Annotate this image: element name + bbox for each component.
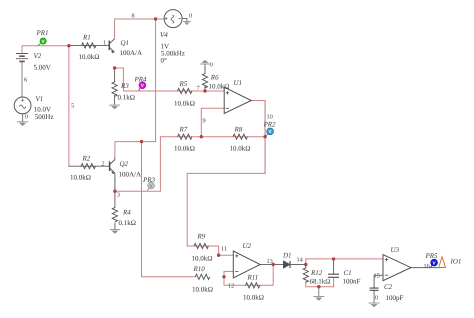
svg-text:5.00V: 5.00V xyxy=(34,64,51,72)
ground under R3 xyxy=(109,105,120,109)
svg-text:R5: R5 xyxy=(179,80,188,88)
svg-text:IO1: IO1 xyxy=(450,258,462,266)
wire battery top to R1 junction xyxy=(22,46,69,53)
svg-text:U1: U1 xyxy=(234,79,243,87)
junction node11 xyxy=(217,254,220,257)
wire node4 vertical to R10 xyxy=(142,142,196,277)
resistor R11 xyxy=(246,283,260,288)
connector IO1 xyxy=(439,257,446,268)
svg-text:1: 1 xyxy=(103,40,106,47)
resistor R2 xyxy=(81,164,95,169)
wire Q2 emitter node3 to R7 xyxy=(115,137,201,192)
svg-text:R11: R11 xyxy=(247,274,259,282)
svg-text:R8: R8 xyxy=(234,126,243,134)
svg-text:9: 9 xyxy=(203,118,206,125)
svg-text:10.0kΩ: 10.0kΩ xyxy=(174,145,195,153)
wire node8 left to Q2 collector xyxy=(115,142,156,158)
svg-text:0.1kΩ: 0.1kΩ xyxy=(119,219,136,227)
wire R6 top to flipped ground xyxy=(204,64,206,74)
wire R12 bottom row to C1 bottom xyxy=(306,277,334,286)
wire R8 row xyxy=(201,136,265,138)
wire C2 bottom to ground xyxy=(373,290,375,303)
svg-text:15: 15 xyxy=(374,273,380,280)
wire node5 vertical junction to R2 xyxy=(68,46,70,167)
resistor R4 xyxy=(112,208,117,222)
op-amp U1 xyxy=(224,87,251,113)
wire ground tap below R12 row xyxy=(318,287,320,297)
resistor R10 xyxy=(195,274,209,279)
wire U3 minus to C2 xyxy=(374,275,383,288)
wire V4 right lead to ground xyxy=(182,19,187,22)
junction Q2 emitter node3 xyxy=(113,190,116,193)
svg-text:8: 8 xyxy=(132,13,135,20)
svg-text:14: 14 xyxy=(297,257,304,264)
svg-text:C2: C2 xyxy=(384,283,393,291)
junction node8 xyxy=(154,17,157,20)
svg-text:100pF: 100pF xyxy=(386,294,404,302)
svg-text:5: 5 xyxy=(71,103,74,110)
svg-text:PR1: PR1 xyxy=(36,29,49,37)
wire C1 top lead xyxy=(333,259,335,274)
probe PR5 xyxy=(431,259,438,267)
svg-text:D1: D1 xyxy=(282,252,292,260)
junction ground tap xyxy=(317,285,320,288)
junction node14 xyxy=(304,263,307,266)
svg-text:0: 0 xyxy=(25,114,28,121)
svg-text:10.0kΩ: 10.0kΩ xyxy=(174,100,195,108)
resistor R5 xyxy=(178,88,192,93)
wire Q1 collector to node8 and V4 xyxy=(115,19,165,39)
AC source V4 xyxy=(164,10,182,28)
probe PR3 xyxy=(147,182,154,191)
svg-text:U3: U3 xyxy=(391,246,400,254)
svg-text:0: 0 xyxy=(210,62,213,69)
svg-text:R3: R3 xyxy=(120,82,129,90)
wire node9 to U1 minus xyxy=(201,108,224,136)
svg-text:10.0kΩ: 10.0kΩ xyxy=(79,53,100,61)
battery V2 xyxy=(16,54,28,62)
svg-text:R7: R7 xyxy=(179,126,188,134)
wire C1 junction to U3 plus input xyxy=(334,258,383,260)
junction node9 xyxy=(200,135,203,138)
flipped ground above R6 xyxy=(200,60,211,64)
svg-text:11: 11 xyxy=(221,246,227,253)
wire node10 down past PR2 xyxy=(264,101,266,174)
wire battery to V1 node6 xyxy=(21,62,23,98)
svg-text:3: 3 xyxy=(117,192,120,199)
svg-text:100A/A: 100A/A xyxy=(120,49,143,57)
svg-text:0: 0 xyxy=(375,295,378,302)
junction Q1 emitter xyxy=(113,66,116,69)
svg-text:500Hz: 500Hz xyxy=(35,113,54,121)
wire U3 output xyxy=(411,267,440,269)
svg-text:R12: R12 xyxy=(310,269,323,277)
svg-text:U2: U2 xyxy=(243,242,252,250)
junction Q2 collector branch xyxy=(140,140,143,143)
probe PR4 xyxy=(139,82,146,91)
svg-text:2: 2 xyxy=(102,161,105,168)
wire R1 row xyxy=(69,44,109,46)
resistor R7 xyxy=(178,134,192,139)
svg-text:68.1kΩ: 68.1kΩ xyxy=(310,278,331,286)
junction R6 bottom node7 xyxy=(203,89,206,92)
svg-text:R6: R6 xyxy=(210,74,219,82)
svg-text:R2: R2 xyxy=(82,155,91,163)
svg-text:10: 10 xyxy=(267,114,273,121)
ground under R4 xyxy=(110,230,120,234)
op-amp U2 xyxy=(233,251,260,278)
svg-text:100A/A: 100A/A xyxy=(119,171,142,179)
transistor Q2 xyxy=(110,158,115,192)
ground at V4 xyxy=(183,22,191,25)
svg-text:10.0kΩ: 10.0kΩ xyxy=(192,286,213,294)
svg-text:PR3: PR3 xyxy=(142,176,156,184)
svg-text:0°: 0° xyxy=(161,57,168,65)
svg-text:C1: C1 xyxy=(344,269,352,277)
wire U2 minus input loop xyxy=(224,265,273,286)
junction R10 to U2 minus xyxy=(222,275,225,278)
wire R4 leads xyxy=(114,191,116,229)
resistor R8 xyxy=(233,134,247,139)
resistor R3 xyxy=(112,82,117,96)
wire R2 row xyxy=(69,165,110,167)
junction node10 xyxy=(263,135,266,138)
probe PR2 xyxy=(265,128,273,136)
svg-text:V2: V2 xyxy=(34,52,42,60)
wire V1 to ground xyxy=(22,114,24,122)
resistor R6 xyxy=(202,74,207,92)
junction C1 top xyxy=(332,257,335,260)
junction node5/R1 xyxy=(67,44,70,47)
op-amp U3 xyxy=(383,255,411,281)
resistor R9 xyxy=(194,243,208,248)
wire R3 leads xyxy=(114,68,116,105)
capacitor C1 xyxy=(328,274,339,277)
ground under V1 xyxy=(17,122,28,126)
diode D1 xyxy=(284,261,291,268)
svg-text:PR5: PR5 xyxy=(425,252,439,260)
svg-text:7: 7 xyxy=(197,85,200,92)
svg-text:10.0kΩ: 10.0kΩ xyxy=(70,174,91,182)
svg-text:0.1kΩ: 0.1kΩ xyxy=(118,94,135,102)
wire D1 cathode to node14 xyxy=(291,264,306,266)
svg-text:Q1: Q1 xyxy=(121,39,130,47)
wire node14 riser to U3 plus xyxy=(306,259,334,265)
svg-text:R1: R1 xyxy=(82,34,91,42)
wire V4 left lead xyxy=(156,18,165,20)
svg-text:PR2: PR2 xyxy=(263,121,277,129)
wire node8 vertical xyxy=(155,19,157,142)
svg-text:R4: R4 xyxy=(122,209,131,217)
ground under R12 row xyxy=(313,297,324,301)
resistor R1 xyxy=(82,43,96,48)
svg-text:12: 12 xyxy=(228,283,234,290)
svg-text:16: 16 xyxy=(424,263,430,270)
svg-text:10.0kΩ: 10.0kΩ xyxy=(192,255,213,263)
svg-text:6: 6 xyxy=(24,77,27,84)
svg-text:R10: R10 xyxy=(193,265,206,273)
svg-text:10.0kΩ: 10.0kΩ xyxy=(230,145,251,153)
svg-text:V4: V4 xyxy=(160,31,168,39)
svg-text:R9: R9 xyxy=(197,233,206,241)
svg-text:Q2: Q2 xyxy=(120,160,129,168)
transistor Q1 xyxy=(109,39,114,54)
capacitor C2 xyxy=(370,288,379,290)
wire U1 output to node10 xyxy=(187,101,265,256)
svg-text:PR4: PR4 xyxy=(134,76,148,84)
svg-text:0: 0 xyxy=(189,13,192,20)
svg-text:10.0kΩ: 10.0kΩ xyxy=(243,294,264,302)
probe PR1 xyxy=(38,38,46,46)
wire U2 output to D1 and node14 xyxy=(260,264,283,266)
AC source V1 xyxy=(14,97,31,114)
ground under C2 xyxy=(369,303,380,307)
wire Q1 emitter to PR4 row xyxy=(115,68,225,91)
resistor R12 xyxy=(303,265,308,283)
svg-text:100nF: 100nF xyxy=(343,278,361,286)
svg-text:V1: V1 xyxy=(36,95,44,103)
junction node13 xyxy=(272,263,275,266)
svg-text:10.0kΩ: 10.0kΩ xyxy=(209,83,230,91)
